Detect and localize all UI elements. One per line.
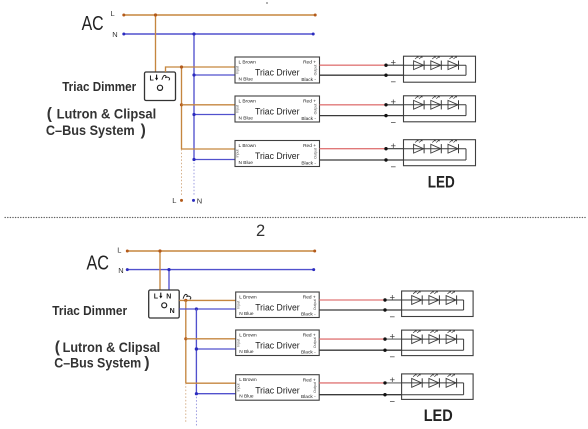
svg-text:): ) — [141, 122, 146, 139]
svg-text:N: N — [112, 30, 117, 39]
svg-text:N Blue: N Blue — [239, 349, 254, 355]
svg-text:L: L — [150, 75, 155, 82]
svg-text:Lutron & Clipsal: Lutron & Clipsal — [63, 339, 161, 355]
svg-text:Output: Output — [313, 104, 317, 115]
svg-text:−: − — [390, 397, 396, 408]
svg-text:Triac Driver: Triac Driver — [255, 385, 300, 396]
svg-text:N Blue: N Blue — [239, 160, 254, 166]
svg-text:N Blue: N Blue — [239, 394, 254, 400]
svg-text:Triac Dimmer: Triac Dimmer — [52, 304, 127, 318]
svg-text:2: 2 — [256, 222, 265, 240]
svg-text:N Blue: N Blue — [239, 115, 254, 121]
svg-text:L Brown: L Brown — [239, 59, 257, 65]
svg-text:Triac Driver: Triac Driver — [255, 341, 300, 352]
svg-text:+: + — [390, 331, 396, 342]
svg-text:Input: Input — [236, 150, 240, 158]
svg-text:+: + — [391, 97, 397, 108]
svg-text:Triac Driver: Triac Driver — [255, 151, 300, 162]
svg-text:L Brown: L Brown — [239, 332, 257, 338]
svg-text:AC: AC — [82, 12, 104, 35]
svg-text:Black -: Black - — [301, 311, 316, 317]
svg-text:Black -: Black - — [301, 394, 316, 400]
svg-text:N Blue: N Blue — [239, 76, 254, 82]
svg-text:Output: Output — [313, 65, 317, 76]
svg-text:LED: LED — [428, 173, 455, 191]
svg-text:Input: Input — [236, 66, 240, 74]
svg-text:Input: Input — [236, 339, 240, 347]
svg-text:(: ( — [55, 339, 61, 356]
svg-text:Triac Driver: Triac Driver — [255, 68, 300, 79]
svg-text:−: − — [390, 352, 396, 363]
svg-text:Triac Driver: Triac Driver — [255, 303, 300, 314]
svg-text:N: N — [170, 308, 175, 315]
svg-text:L: L — [117, 246, 121, 255]
svg-text:L Brown: L Brown — [239, 377, 257, 383]
svg-text:N: N — [197, 196, 202, 205]
svg-text:(: ( — [47, 105, 53, 122]
svg-text:L: L — [172, 196, 176, 205]
svg-text:AC: AC — [87, 251, 110, 274]
svg-text:Lutron & Clipsal: Lutron & Clipsal — [57, 105, 157, 121]
svg-text:L Brown: L Brown — [239, 98, 257, 104]
svg-text:Output: Output — [313, 148, 317, 159]
svg-text:Black -: Black - — [301, 116, 316, 122]
svg-text:Output: Output — [313, 299, 317, 310]
svg-text:C–Bus System: C–Bus System — [54, 355, 141, 371]
svg-text:−: − — [391, 162, 397, 173]
svg-text:Input: Input — [236, 301, 240, 309]
svg-text:LED: LED — [424, 407, 453, 425]
svg-text:Black -: Black - — [301, 160, 316, 166]
svg-text:−: − — [391, 77, 397, 88]
svg-text:Output: Output — [313, 382, 317, 393]
svg-text:N: N — [166, 293, 171, 300]
svg-text:−: − — [390, 312, 396, 323]
svg-text:N Blue: N Blue — [239, 311, 254, 317]
svg-text:Input: Input — [236, 383, 240, 391]
svg-text:Black -: Black - — [301, 349, 316, 355]
svg-text:N: N — [118, 266, 123, 275]
svg-text:Triac Driver: Triac Driver — [255, 107, 300, 118]
svg-text:Black -: Black - — [301, 77, 316, 83]
svg-text:Input: Input — [236, 105, 240, 113]
svg-text:L Brown: L Brown — [239, 294, 257, 300]
svg-text:+: + — [391, 58, 397, 69]
svg-text:L: L — [154, 293, 159, 300]
svg-text:−: − — [391, 117, 397, 128]
svg-text:L Brown: L Brown — [239, 143, 257, 149]
svg-text:+: + — [390, 375, 396, 386]
svg-text:C–Bus System: C–Bus System — [46, 122, 135, 138]
svg-text:+: + — [391, 141, 397, 152]
svg-text:Output: Output — [313, 337, 317, 348]
svg-text:+: + — [390, 292, 396, 303]
svg-text:L: L — [111, 9, 115, 18]
svg-text:Triac Dimmer: Triac Dimmer — [62, 80, 136, 94]
svg-text:): ) — [144, 355, 149, 372]
